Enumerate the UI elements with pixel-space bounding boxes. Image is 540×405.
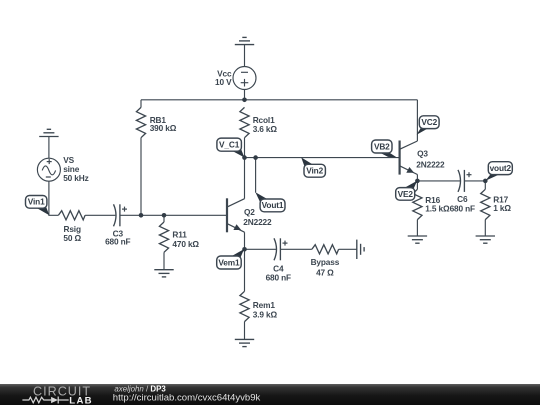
junction Q3 emitter node VE2 <box>415 179 420 184</box>
resistor Rem1 <box>240 291 249 321</box>
node VC2 <box>417 116 439 135</box>
wire junction to Rem1 <box>244 249 246 291</box>
svg-text:2N2222: 2N2222 <box>243 217 272 227</box>
wire node V_C1 to Q3 base <box>245 157 400 159</box>
ground (below Rem1) <box>235 339 254 346</box>
net flags <box>26 116 513 269</box>
svg-text:10 V: 10 V <box>215 77 232 87</box>
resistor R16 <box>413 189 422 219</box>
capacitor C3 <box>114 204 128 226</box>
resistor Rsig <box>58 211 85 220</box>
ground (below R17) <box>476 236 495 243</box>
svg-text:Q3: Q3 <box>417 149 428 159</box>
transistor Q2 2N2222 <box>227 158 245 250</box>
junction RB1 base <box>139 213 144 218</box>
ground (top, above Vcc) <box>235 37 254 44</box>
wire emitter Q3 to C6 <box>417 180 460 182</box>
voltage source VS sine <box>37 158 60 181</box>
svg-text:2N2222: 2N2222 <box>416 160 445 170</box>
wire ground to VS <box>48 137 50 159</box>
svg-text:1.5 kΩ: 1.5 kΩ <box>425 204 450 214</box>
wire RB1 to base node <box>140 138 142 216</box>
resistor R11 <box>159 222 168 252</box>
junction Q2 emitter node <box>242 247 247 252</box>
wire junction to R16 <box>416 181 418 189</box>
resistor Bypass <box>312 245 339 254</box>
wire Bypass to ground <box>339 248 357 250</box>
node Vin2 <box>301 157 325 177</box>
svg-text:vout2: vout2 <box>490 163 512 173</box>
node V_C1 <box>217 138 244 157</box>
svg-text:http://circuitlab.com/cvxc64t4: http://circuitlab.com/cvxc64t4yvb9k <box>113 392 261 403</box>
ground (above VS) <box>39 129 58 136</box>
capacitor C4 <box>274 238 288 260</box>
svg-text:3.9 kΩ: 3.9 kΩ <box>253 310 278 320</box>
svg-text:Bypass: Bypass <box>311 257 340 267</box>
wire junction to R17 <box>484 181 486 189</box>
node Vin1 <box>26 196 50 216</box>
svg-text:Vout1: Vout1 <box>262 200 284 210</box>
footer bar <box>0 384 540 405</box>
node Vem1 <box>217 249 245 269</box>
svg-text:50 kHz: 50 kHz <box>63 173 88 183</box>
svg-text:390 kΩ: 390 kΩ <box>150 123 177 133</box>
wire ground to Vcc <box>244 45 246 67</box>
svg-text:3.6 kΩ: 3.6 kΩ <box>253 124 278 134</box>
wire Vcc to rail <box>244 90 246 100</box>
CircuitLab logo resistor-diode squiggle <box>22 397 68 404</box>
svg-text:VB2: VB2 <box>374 141 390 151</box>
wire node to Vout1 <box>255 158 257 193</box>
wire R17 to ground <box>484 220 486 236</box>
wire C4 to Bypass <box>280 248 312 250</box>
svg-text:680 nF: 680 nF <box>450 203 475 213</box>
transistor Q3 2N2222 <box>400 100 418 181</box>
node VE2 <box>396 181 418 201</box>
wire R11 to ground <box>163 252 165 269</box>
wire Rsig to C3 <box>85 214 115 216</box>
svg-text:Q2: Q2 <box>244 207 255 217</box>
junction Vcc rail <box>242 98 247 103</box>
junction vout2 node <box>483 179 488 184</box>
svg-text:LAB: LAB <box>69 395 93 405</box>
resistor R17 <box>481 189 490 219</box>
node vout2 <box>485 162 512 181</box>
node VB2 <box>372 140 397 157</box>
svg-text:47 Ω: 47 Ω <box>316 268 334 278</box>
wire Rem1 to ground <box>244 322 246 340</box>
node Vout1 <box>255 192 285 212</box>
component value labels <box>63 68 511 319</box>
ground (sideways, right of Bypass) <box>357 240 364 259</box>
svg-text:Vem1: Vem1 <box>218 257 240 267</box>
svg-text:470 kΩ: 470 kΩ <box>172 239 199 249</box>
svg-text:680 nF: 680 nF <box>105 237 130 247</box>
wire rail to RB1 <box>140 100 142 108</box>
wire R16 to ground <box>416 220 418 236</box>
capacitor C6 <box>458 170 472 192</box>
svg-text:VE2: VE2 <box>398 189 414 199</box>
wire C6 to vout2 junction <box>464 180 485 182</box>
wire C3 to Q2 base <box>120 214 227 216</box>
voltage source Vcc 10V <box>233 67 256 90</box>
svg-text:680 nF: 680 nF <box>266 272 291 282</box>
resistor RB1 <box>136 107 145 137</box>
junction node V_C1 <box>242 155 247 160</box>
svg-text:1 kΩ: 1 kΩ <box>493 203 511 213</box>
svg-text:V_C1: V_C1 <box>219 140 240 150</box>
wire Rcol1 to node V_C1 <box>244 138 246 158</box>
wire top rail <box>141 99 417 101</box>
svg-text:VC2: VC2 <box>421 117 437 127</box>
junction R11 base <box>162 213 167 218</box>
ground (below R11) <box>154 270 173 277</box>
junction Vout1 tap <box>253 155 258 160</box>
svg-text:Vin2: Vin2 <box>306 166 323 176</box>
resistor Rcol1 <box>240 107 249 137</box>
svg-text:Vin1: Vin1 <box>28 197 45 207</box>
svg-text:50 Ω: 50 Ω <box>63 233 81 243</box>
wire junction to R11 <box>163 215 165 222</box>
ground (below R16) <box>408 236 427 243</box>
wire emitter junction to C4 <box>245 248 277 250</box>
wire VS to Vin1 corner <box>49 181 59 215</box>
